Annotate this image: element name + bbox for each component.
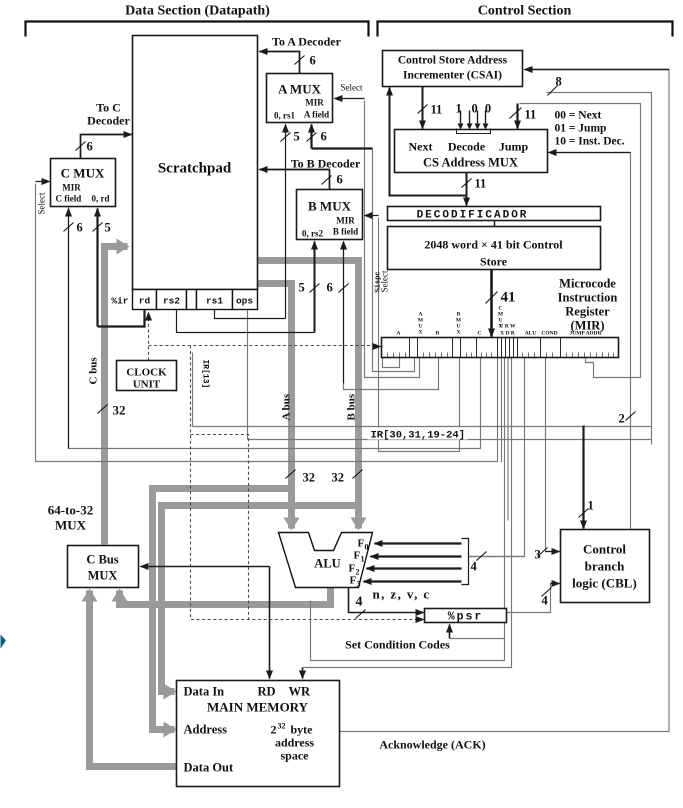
svg-text:Data Out: Data Out (184, 761, 234, 775)
svg-text:8: 8 (556, 75, 562, 89)
svg-text:A bus: A bus (281, 393, 293, 420)
svg-text:F: F (354, 550, 361, 562)
svg-text:5: 5 (299, 281, 305, 295)
svg-text:3: 3 (535, 548, 541, 562)
svg-text:X D R: X D R (500, 331, 516, 337)
svg-text:6: 6 (337, 173, 343, 187)
svg-text:DECODIFICADOR: DECODIFICADOR (417, 210, 529, 222)
svg-text:logic (CBL): logic (CBL) (572, 576, 637, 591)
svg-text:To C: To C (96, 101, 121, 115)
svg-text:RD: RD (258, 685, 276, 699)
svg-text:32: 32 (278, 722, 286, 731)
svg-text:Control: Control (583, 542, 626, 557)
svg-text:C: C (478, 331, 482, 337)
svg-text:6: 6 (77, 221, 83, 235)
svg-text:Incrementer (CSAI): Incrementer (CSAI) (403, 70, 502, 82)
svg-text:5: 5 (294, 130, 300, 144)
svg-text:Scratchpad: Scratchpad (158, 161, 232, 177)
svg-text:Address: Address (184, 723, 228, 737)
svg-text:rd: rd (139, 296, 151, 307)
svg-text:Data In: Data In (184, 685, 225, 699)
svg-text:address: address (275, 736, 314, 750)
svg-text:32: 32 (332, 471, 345, 485)
svg-text:ALU: ALU (314, 557, 340, 571)
svg-text:COND: COND (541, 331, 557, 337)
svg-text:Decoder: Decoder (87, 114, 130, 128)
svg-text:rs1: rs1 (206, 296, 223, 307)
svg-text:branch: branch (585, 559, 626, 574)
svg-text:A MUX: A MUX (278, 82, 322, 97)
svg-text:6: 6 (310, 54, 316, 68)
svg-text:X: X (457, 330, 461, 336)
svg-text:Control Section: Control Section (478, 4, 572, 19)
svg-text:Acknowledge (ACK): Acknowledge (ACK) (379, 738, 485, 752)
svg-text:6: 6 (87, 140, 93, 154)
svg-text:0, rs1: 0, rs1 (274, 111, 295, 121)
svg-text:C bus: C bus (88, 357, 100, 385)
svg-text:64-to-32: 64-to-32 (48, 503, 94, 518)
svg-text:4: 4 (471, 560, 478, 574)
svg-text:1: 1 (456, 102, 462, 116)
svg-text:ops: ops (236, 296, 253, 307)
svg-text:ALU: ALU (525, 331, 537, 337)
svg-text:C MUX: C MUX (61, 166, 105, 181)
svg-text:Microcode: Microcode (559, 277, 616, 291)
svg-text:C Bus: C Bus (86, 553, 118, 567)
svg-text:%ispc: %ispc (375, 271, 383, 292)
svg-text:6: 6 (321, 130, 327, 144)
svg-text:MAIN MEMORY: MAIN MEMORY (207, 700, 309, 715)
svg-text:%ir: %ir (111, 296, 128, 307)
svg-text:32: 32 (113, 403, 126, 418)
svg-text:MIR: MIR (305, 98, 324, 108)
svg-text:WR: WR (289, 685, 312, 699)
svg-text:B bus: B bus (346, 393, 358, 420)
svg-text:6: 6 (327, 281, 333, 295)
svg-text:F: F (358, 538, 365, 550)
svg-text:2: 2 (619, 412, 625, 426)
svg-text:11: 11 (525, 108, 537, 122)
svg-text:Instruction: Instruction (558, 291, 618, 305)
svg-text:X: X (419, 330, 423, 336)
svg-text:IR[13]: IR[13] (201, 360, 210, 389)
svg-text:C field: C field (56, 194, 82, 204)
svg-text:CLOCK: CLOCK (126, 367, 167, 379)
svg-text:Set Condition Codes: Set Condition Codes (345, 638, 450, 652)
svg-text:n, z, v, c: n, z, v, c (373, 587, 431, 602)
svg-text:0, rs2: 0, rs2 (302, 229, 323, 239)
svg-text:F: F (349, 563, 356, 575)
svg-text:Data Section (Datapath): Data Section (Datapath) (125, 4, 270, 19)
svg-text:41: 41 (501, 290, 516, 306)
svg-text:byte: byte (291, 723, 314, 737)
svg-text:0: 0 (365, 543, 369, 552)
svg-text:MIR: MIR (62, 183, 81, 193)
svg-text:B MUX: B MUX (308, 199, 352, 214)
svg-text:To B Decoder: To B Decoder (291, 157, 361, 171)
svg-text:Decode: Decode (448, 140, 486, 154)
svg-text:Next: Next (409, 140, 433, 154)
svg-text:CS Address MUX: CS Address MUX (423, 156, 518, 170)
svg-text:5: 5 (105, 221, 111, 235)
svg-text:IR[30,31,19-24]: IR[30,31,19-24] (371, 430, 466, 442)
svg-text:11: 11 (431, 103, 443, 117)
svg-text:%psr: %psr (448, 611, 484, 624)
svg-text:11: 11 (475, 177, 487, 191)
svg-text:A: A (397, 331, 401, 337)
svg-text:Control Store Address: Control Store Address (398, 55, 508, 67)
svg-text:1: 1 (361, 555, 365, 564)
svg-text:01 = Jump: 01 = Jump (555, 123, 607, 135)
svg-text:B: B (436, 331, 440, 337)
svg-text:1: 1 (588, 499, 594, 513)
svg-text:UNIT: UNIT (133, 379, 161, 391)
svg-text:2048 word × 41 bit Control: 2048 word × 41 bit Control (424, 238, 563, 252)
svg-text:0, rd: 0, rd (92, 194, 110, 204)
svg-text:Jump: Jump (499, 140, 529, 154)
svg-text:3: 3 (357, 580, 361, 589)
svg-text:MUX: MUX (55, 518, 87, 533)
svg-text:MIR: MIR (336, 216, 355, 226)
svg-text:rs2: rs2 (163, 296, 180, 307)
svg-text:4: 4 (356, 595, 363, 610)
svg-text:4: 4 (542, 594, 549, 608)
svg-text:Store: Store (480, 255, 508, 269)
svg-text:U R W: U R W (499, 324, 516, 330)
svg-text:0 0: 0 0 (472, 102, 494, 116)
svg-text:B field: B field (333, 227, 358, 237)
svg-text:To A Decoder: To A Decoder (272, 35, 342, 49)
svg-text:10 = Inst. Dec.: 10 = Inst. Dec. (555, 136, 625, 148)
svg-text:JUMP ADDR: JUMP ADDR (570, 331, 603, 337)
svg-text:Select: Select (341, 83, 363, 93)
svg-text:Register: Register (565, 305, 610, 319)
svg-text:00 = Next: 00 = Next (555, 110, 602, 122)
svg-text:A field: A field (304, 110, 329, 120)
svg-text:2: 2 (271, 723, 277, 737)
svg-text:Select: Select (37, 192, 47, 214)
svg-text:space: space (281, 749, 310, 763)
svg-text:F: F (350, 575, 357, 587)
svg-text:32: 32 (303, 471, 316, 485)
svg-text:MUX: MUX (88, 569, 118, 583)
